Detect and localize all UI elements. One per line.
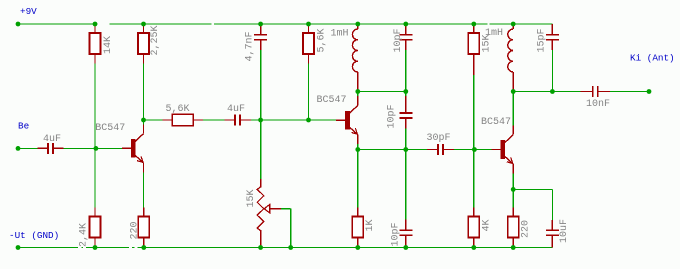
svg-text:220: 220 (521, 220, 532, 238)
potentiometer 15K (246, 179, 291, 248)
wire (405, 50, 407, 92)
capacitor 30pF (427, 133, 455, 155)
resistor 220 (Q3 emitter) (508, 208, 532, 248)
capacitor 10pF (middle) (387, 96, 413, 129)
net label +9V (20, 6, 37, 17)
wire (18, 247, 552, 249)
svg-text:1mH: 1mH (485, 28, 503, 39)
wire (610, 91, 649, 93)
svg-text:10nF: 10nF (586, 99, 610, 110)
wire (18, 23, 552, 25)
wire gap patches (78, 23, 489, 249)
wire (512, 90, 514, 92)
wire (405, 129, 407, 150)
svg-text:2,4K: 2,4K (79, 223, 90, 247)
node 1K/gnd (355, 245, 360, 250)
node wiper/gnd (288, 245, 293, 250)
capacitor 10pF (bottom) (391, 220, 413, 248)
capacitor 10uF (546, 219, 570, 248)
capacitor 10pF (top) (393, 24, 412, 53)
wire (64, 147, 96, 149)
capacitor 4,7nF (245, 24, 268, 62)
wire (406, 149, 427, 151)
wire (474, 149, 491, 151)
svg-text:30pF: 30pF (427, 133, 451, 144)
svg-text:5,6K: 5,6K (317, 28, 328, 52)
wire (251, 119, 261, 121)
node 5,6K/rail (306, 22, 311, 27)
node 4K/gnd (471, 245, 476, 250)
wire (357, 150, 359, 208)
svg-text:Ki (Ant): Ki (Ant) (630, 53, 675, 64)
resistor 2,25K (138, 24, 161, 64)
wire (261, 119, 309, 121)
wire (358, 91, 406, 93)
wire (143, 120, 145, 125)
resistor 5,6K (bias) (303, 24, 328, 64)
net label -Ut (GND) (9, 230, 59, 241)
wire (308, 64, 310, 121)
wire (512, 174, 514, 190)
svg-text:4uF: 4uF (43, 134, 61, 145)
resistor 14K (90, 24, 114, 64)
wire (405, 92, 407, 97)
svg-text:10pF: 10pF (387, 104, 398, 128)
wire (18, 147, 38, 149)
wire (94, 64, 96, 149)
svg-text:15pF: 15pF (537, 28, 548, 52)
capacitor 4uF (input) (38, 134, 64, 154)
svg-text:10pF: 10pF (391, 222, 402, 246)
svg-text:15K: 15K (246, 189, 257, 207)
svg-text:10pF: 10pF (393, 28, 404, 52)
node 2,4K/gnd (93, 245, 98, 250)
wire (357, 144, 359, 149)
node L1/rail (355, 22, 360, 27)
node 4,7nF/rail (258, 22, 263, 27)
wire (290, 209, 292, 248)
svg-text:220: 220 (130, 221, 141, 239)
node Q3 base (472, 147, 477, 152)
node Q1 collector (141, 118, 146, 123)
node tank2 right (550, 89, 555, 94)
svg-text:10uF: 10uF (559, 219, 570, 243)
node +9V terminal (16, 22, 21, 27)
node pot/gnd (258, 245, 263, 250)
node 220-2/gnd (511, 245, 516, 250)
wire (260, 50, 262, 120)
wire (551, 50, 553, 92)
transistor Q3 BC547 (481, 117, 513, 174)
wire (309, 119, 337, 121)
svg-text:1K: 1K (365, 219, 376, 231)
node 14K/rail (93, 22, 98, 27)
wire (358, 149, 406, 151)
svg-text:5,6K: 5,6K (166, 104, 190, 115)
wire (512, 189, 514, 207)
transistor Q2 BC547 (317, 95, 358, 144)
wire (143, 64, 145, 121)
wire (203, 119, 225, 121)
svg-text:BC547: BC547 (481, 117, 511, 128)
capacitor 4uF (coupling) (225, 104, 251, 126)
wire (260, 120, 262, 179)
resistor 4K (468, 208, 492, 248)
node Q2 emitter (355, 147, 360, 152)
svg-text:BC547: BC547 (95, 123, 125, 134)
net label Be (18, 121, 29, 132)
wire (473, 64, 475, 150)
svg-text:-Ut (GND): -Ut (GND) (9, 230, 59, 241)
capacitor 10nF (581, 86, 611, 110)
wire (405, 150, 407, 220)
resistor 15K (bias) (468, 24, 492, 75)
wire (96, 147, 122, 149)
svg-text:14K: 14K (103, 36, 114, 54)
wire (473, 150, 475, 208)
node GND terminal (16, 245, 21, 250)
node 2,25K/rail (141, 22, 146, 27)
wire (143, 172, 145, 207)
node 4,7nF/pot (258, 118, 263, 123)
svg-text:4,7nF: 4,7nF (245, 31, 256, 61)
wire (144, 119, 163, 121)
node tank1 left (355, 89, 360, 94)
inductor 1mH (first tank) (331, 24, 358, 90)
svg-text:+9V: +9V (20, 6, 37, 17)
node L2/rail (511, 22, 516, 27)
node tank2 left (511, 89, 516, 94)
wire (513, 91, 552, 93)
resistor 220 (Q1 emitter) (130, 208, 150, 248)
resistor 1K (352, 208, 376, 248)
wire (552, 91, 580, 93)
node Q1 base (94, 146, 99, 151)
wire (513, 188, 552, 190)
node Q3 emitter (511, 187, 516, 192)
node Be terminal (16, 146, 21, 151)
node 15K/rail (471, 22, 476, 27)
transistor Q1 BC547 (95, 123, 143, 172)
node 10pF/gnd (403, 245, 408, 250)
svg-text:4K: 4K (482, 219, 493, 231)
node 10pF mid bottom (403, 147, 408, 152)
wire (94, 148, 96, 207)
resistor 5,6K (series) (163, 104, 204, 126)
inductor 1mH (second tank) (485, 24, 513, 90)
wire (357, 90, 359, 92)
node 220/gnd (141, 245, 146, 250)
wire (357, 92, 359, 97)
svg-text:4uF: 4uF (227, 104, 245, 115)
wire (512, 92, 514, 126)
svg-text:2,25K: 2,25K (150, 25, 161, 55)
svg-text:BC547: BC547 (317, 95, 347, 106)
net label Ki (Ant) (630, 53, 675, 64)
resistor 2,4K (79, 208, 101, 248)
capacitor 15pF (537, 24, 559, 53)
svg-text:1mH: 1mH (331, 28, 349, 39)
node 5,6K/Q2 base (306, 118, 311, 123)
node tank1 right (403, 89, 408, 94)
node 10pF/rail (403, 22, 408, 27)
node Ki output terminal (647, 89, 652, 94)
wire (551, 189, 553, 220)
svg-text:Be: Be (18, 121, 29, 132)
wire (454, 149, 474, 151)
